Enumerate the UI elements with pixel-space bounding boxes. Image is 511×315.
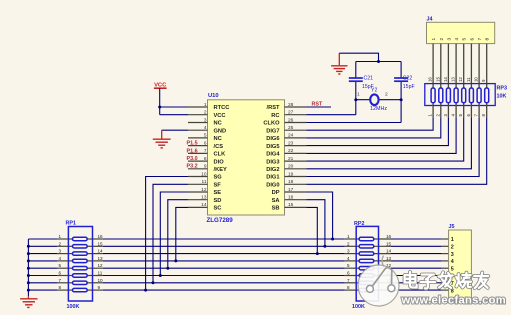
wire DIG0 to RP3 column 8 [307, 117, 487, 184]
svg-text:P3.0: P3.0 [187, 156, 198, 162]
svg-text:16: 16 [98, 234, 104, 239]
RP3 pin 4 bottom stub [455, 106, 457, 118]
resistor pack RP1 box [68, 227, 92, 302]
bus row 2 wire [28, 245, 57, 247]
U10 pin 6 stub (/CS) [188, 145, 208, 147]
junction top edge [377, 60, 380, 63]
svg-text:10: 10 [474, 77, 479, 82]
svg-text:SG: SG [214, 175, 223, 181]
junction SD/row5 [166, 267, 169, 270]
U10 pin 13 stub (SD) [188, 199, 208, 201]
svg-text:DIG3: DIG3 [266, 159, 279, 165]
svg-text:SC: SC [214, 206, 222, 212]
RP2 resistor element 1 [359, 237, 374, 240]
U10 pin 5 stub (NC) [188, 137, 208, 139]
RP3 resistor element 1 [431, 88, 435, 103]
svg-text:6: 6 [58, 271, 61, 276]
U10 pin 15 stub (SB) [285, 206, 307, 208]
svg-text:7: 7 [477, 38, 483, 41]
resistor pack RP2 box [356, 226, 378, 301]
svg-text:RP1: RP1 [66, 220, 77, 226]
bus row 8 wire [28, 289, 57, 291]
RP2 resistor element 3 [359, 252, 374, 255]
junction DP/row1 [331, 238, 334, 241]
U10 pin 16 stub (SA) [285, 199, 307, 201]
svg-text:8: 8 [347, 285, 350, 290]
U10 pin 18 stub (DIG0) [285, 183, 307, 185]
U10 pin 1 stub (RTCC) [188, 106, 208, 108]
RP2 resistor element 6 [359, 274, 374, 277]
junction bus/row8 [27, 289, 30, 292]
RP3 pin 5 bottom stub [463, 106, 465, 118]
junction SC/row4 [174, 259, 177, 262]
svg-text:8: 8 [485, 38, 491, 41]
svg-text:RTCC: RTCC [214, 105, 230, 111]
bus row 4 wire [28, 260, 57, 262]
wire DIG7 to RP3 column 1 [307, 117, 434, 130]
svg-text:SD: SD [214, 198, 222, 204]
svg-text:DIG6: DIG6 [266, 136, 279, 142]
wire crystal row [356, 99, 401, 101]
wire DIG1 to RP3 column 7 [307, 117, 480, 176]
wire SC to bus row 4 [176, 207, 188, 261]
svg-text:4: 4 [58, 256, 61, 261]
svg-text:DIO: DIO [214, 159, 225, 165]
svg-text:11: 11 [466, 77, 471, 82]
RP3 resistor element 6 [469, 88, 473, 103]
svg-text:10K: 10K [497, 94, 507, 100]
RP3 pin 1 bottom stub [432, 106, 434, 118]
svg-text:6: 6 [204, 140, 207, 146]
svg-text:DIG5: DIG5 [266, 144, 279, 150]
wire right branch through C22 [400, 62, 402, 78]
junction SE/row6 [159, 274, 162, 277]
RP1 resistor element 4 [73, 259, 88, 262]
U10 pin 8 stub (DIO) [188, 160, 208, 162]
svg-text:J4: J4 [427, 16, 433, 22]
capacitor C22 [394, 77, 408, 79]
junction crystal node 2 [400, 98, 403, 101]
svg-text:3: 3 [204, 117, 207, 123]
svg-text:14: 14 [201, 202, 207, 208]
svg-text:VCC: VCC [214, 113, 226, 119]
J4 pin 8 stub [486, 44, 488, 84]
svg-text:1: 1 [451, 237, 454, 243]
RP3 column internal wire 5 [463, 84, 465, 88]
svg-text:8: 8 [58, 285, 61, 290]
svg-text:2: 2 [451, 245, 454, 251]
svg-text:P1.6: P1.6 [187, 148, 198, 154]
svg-text:4: 4 [204, 125, 207, 131]
svg-text:5: 5 [451, 266, 454, 272]
svg-text:28: 28 [288, 102, 294, 108]
RP3 pin 8 bottom stub [486, 106, 488, 118]
svg-text:RST: RST [312, 101, 323, 107]
watermark logo circle [358, 265, 399, 306]
svg-text:2: 2 [439, 38, 445, 41]
svg-text:15: 15 [288, 202, 294, 208]
wire SE to bus row 6 [160, 192, 188, 276]
svg-text:3: 3 [451, 252, 454, 258]
svg-text:SB: SB [272, 206, 280, 212]
wire DIG6 to RP3 column 2 [307, 117, 441, 138]
junction bus/row7 [27, 281, 30, 284]
svg-text:13: 13 [386, 256, 392, 261]
svg-text:21: 21 [288, 156, 294, 162]
U10 pin 26 stub (CLKO) [285, 122, 307, 124]
U10 pin 23 stub (DIG5) [285, 145, 307, 147]
svg-text:23: 23 [288, 140, 294, 146]
RP3 column internal wire 7 [478, 84, 480, 88]
svg-text:2: 2 [204, 110, 207, 116]
U10 pin 24 stub (DIG6) [285, 137, 307, 139]
junction bus/row2 [27, 245, 30, 248]
wire SD to bus row 5 [168, 200, 188, 269]
U10 pin 7 stub (CLK) [188, 152, 208, 154]
junction crystal node 1 [354, 98, 357, 101]
J4 pin 4 stub [455, 44, 457, 84]
svg-text:SF: SF [214, 183, 222, 189]
svg-text:4: 4 [451, 259, 454, 265]
svg-text:RP3: RP3 [497, 86, 508, 92]
svg-text:2: 2 [347, 241, 350, 246]
RP3 column internal wire 6 [470, 84, 472, 88]
ground at RP1 bus [27, 296, 29, 298]
svg-text:12MHz: 12MHz [370, 106, 387, 112]
svg-text:P1.5: P1.5 [187, 141, 198, 147]
watermark title 电子发烧友 [408, 272, 412, 284]
svg-text:14: 14 [443, 77, 448, 82]
svg-text:26: 26 [288, 117, 294, 123]
RP1 resistor element 7 [73, 281, 88, 284]
svg-text:9: 9 [204, 164, 207, 170]
RP3 pin 7 bottom stub [478, 106, 480, 118]
crystal Y2 12MHz [370, 94, 378, 105]
svg-text:4: 4 [347, 256, 350, 261]
RP3 resistor element 4 [454, 88, 458, 103]
svg-text:3: 3 [58, 249, 61, 254]
IC U10 ZLG7289 body [208, 100, 285, 215]
RP2 resistor element 4 [359, 259, 374, 262]
RP3 pin 6 bottom stub [470, 106, 472, 118]
svg-text:6: 6 [347, 271, 350, 276]
RP1 resistor element 6 [73, 274, 88, 277]
U10 pin 12 stub (SE) [188, 191, 208, 193]
J4 pin 1 stub [432, 44, 434, 84]
wire VCC to pin1 RTCC [160, 106, 188, 108]
ground at crystal [338, 53, 340, 65]
svg-text:7: 7 [204, 148, 207, 154]
U10 pin 21 stub (DIG3) [285, 160, 307, 162]
svg-text:25: 25 [288, 125, 294, 131]
svg-text:16: 16 [288, 195, 294, 201]
RP2 resistor element 5 [359, 267, 374, 270]
svg-text:9: 9 [98, 285, 101, 290]
RP3 resistor element 8 [485, 88, 489, 103]
wire GND pin4 [162, 129, 188, 131]
svg-text:Y2: Y2 [371, 88, 377, 94]
RP3 column internal wire 2 [440, 84, 442, 88]
bus row 1 wire [28, 238, 57, 240]
RP3 resistor element 7 [477, 88, 481, 103]
junction bus/row6 [27, 274, 30, 277]
ground at U10 GND pin [161, 130, 163, 138]
svg-text:24: 24 [288, 133, 294, 139]
RP1 resistor element 5 [73, 267, 88, 270]
svg-text:20: 20 [288, 164, 294, 170]
svg-text:14: 14 [386, 249, 392, 254]
svg-text:4: 4 [454, 38, 460, 41]
svg-text:DIG0: DIG0 [266, 183, 279, 189]
junction bus/row4 [27, 259, 30, 262]
svg-text:1: 1 [347, 234, 350, 239]
svg-text:14: 14 [98, 249, 104, 254]
wire crystal ground top [339, 53, 378, 61]
U10 pin 19 stub (DIG1) [285, 176, 307, 178]
svg-text:C22: C22 [403, 76, 413, 82]
wire crystal top edge [356, 61, 401, 63]
svg-text:15pF: 15pF [403, 84, 415, 90]
net label RST on pin 28 [307, 106, 332, 108]
svg-text:DIG7: DIG7 [266, 128, 279, 134]
RP3 column internal wire 1 [432, 84, 434, 88]
svg-text:DP: DP [272, 190, 280, 196]
svg-text:12: 12 [98, 263, 104, 268]
svg-text:10: 10 [201, 171, 207, 177]
U10 pin 2 stub (VCC) [188, 114, 208, 116]
RP3 pin 2 bottom stub [440, 106, 442, 118]
RP3 column internal wire 4 [455, 84, 457, 88]
U10 pin 11 stub (SF) [188, 183, 208, 185]
svg-text:5: 5 [58, 263, 61, 268]
RP2 resistor element 7 [359, 281, 374, 284]
svg-text:16: 16 [386, 234, 392, 239]
svg-text:13: 13 [98, 256, 104, 261]
wire DP to bus row 1 [307, 192, 333, 239]
svg-text:NC: NC [214, 121, 222, 127]
RP2 resistor element 8 [359, 288, 374, 291]
wire VCC to pin2 VCC [160, 114, 188, 116]
svg-text:7: 7 [347, 278, 350, 283]
capacitor C21 [349, 77, 363, 79]
bus row 3 wire [28, 253, 57, 255]
RP1 resistor element 8 [73, 288, 88, 291]
svg-text:CLKO: CLKO [263, 121, 280, 127]
svg-text:15: 15 [386, 241, 392, 246]
svg-text:12: 12 [201, 187, 207, 193]
svg-text:12: 12 [458, 77, 463, 82]
bus row 6 wire [28, 275, 57, 277]
svg-text:13: 13 [451, 77, 456, 82]
RP3 column internal wire 8 [486, 84, 488, 88]
wire left branch through C21 [355, 62, 357, 78]
svg-text:SE: SE [214, 190, 222, 196]
RP3 resistor element 5 [462, 88, 466, 103]
svg-text:11: 11 [202, 179, 207, 185]
U10 pin 27 stub (RC) [285, 114, 307, 116]
wire SF to bus row 7 [153, 184, 188, 282]
wire DIG4 to RP3 column 4 [307, 117, 457, 153]
watermark logo arm [382, 256, 384, 267]
RP1 resistor element 2 [73, 245, 88, 248]
J4 pin 3 stub [447, 44, 449, 84]
svg-text:18: 18 [288, 179, 294, 185]
svg-text:11: 11 [98, 271, 103, 276]
svg-text:15: 15 [98, 241, 104, 246]
U10 pin 3 stub (NC) [188, 122, 208, 124]
J4 pin 2 stub [440, 44, 442, 84]
svg-text:SA: SA [272, 198, 280, 204]
svg-text:16: 16 [428, 77, 433, 82]
wire SG to bus row 8 [146, 177, 188, 291]
svg-text:27: 27 [288, 110, 294, 116]
wire DIG3 to RP3 column 5 [307, 117, 464, 161]
svg-text:19: 19 [288, 171, 294, 177]
RP3 pin 3 bottom stub [447, 106, 449, 118]
svg-text:3: 3 [446, 38, 452, 41]
svg-text:1: 1 [431, 38, 437, 41]
svg-text:3: 3 [347, 249, 350, 254]
J4 pin 6 stub [470, 44, 472, 84]
RP3 resistor element 2 [439, 88, 443, 103]
resistor pack RP3 box [425, 84, 495, 106]
wire DIG5 to RP3 column 3 [307, 117, 449, 145]
U10 pin 17 stub (DP) [285, 191, 307, 193]
wire CLKO pin26 to crystal node 2 [307, 122, 402, 124]
wire DIG2 to RP3 column 6 [307, 117, 472, 169]
RP3 column internal wire 3 [447, 84, 449, 88]
ground bus at RP1 [27, 239, 29, 296]
svg-text:15: 15 [435, 77, 440, 82]
svg-text:10: 10 [98, 278, 104, 283]
U10 pin 9 stub (/KEY) [188, 168, 208, 170]
svg-text:DIG1: DIG1 [266, 175, 279, 181]
svg-text:13: 13 [201, 195, 207, 201]
U10 pin 10 stub (SG) [188, 176, 208, 178]
wire SB to bus row 3 [307, 207, 318, 253]
svg-text:7: 7 [58, 278, 61, 283]
junction bus/row3 [27, 252, 30, 255]
svg-text:GND: GND [214, 128, 227, 134]
svg-text:5: 5 [347, 263, 350, 268]
svg-text:6: 6 [469, 38, 475, 41]
RP3 resistor element 3 [446, 88, 450, 103]
svg-text:100K: 100K [67, 304, 80, 310]
junction SF/row7 [152, 281, 155, 284]
wire VCC vertical [159, 88, 161, 115]
svg-text:/RST: /RST [267, 105, 280, 111]
svg-text:U10: U10 [208, 93, 219, 99]
svg-text:1: 1 [357, 92, 360, 98]
svg-text:J5: J5 [449, 224, 455, 230]
svg-text:/CS: /CS [214, 144, 224, 150]
svg-text:5: 5 [462, 38, 468, 41]
svg-text:ZLG7289: ZLG7289 [207, 217, 234, 224]
svg-text:2: 2 [58, 241, 61, 246]
svg-text:8: 8 [204, 156, 207, 162]
svg-text:C21: C21 [364, 76, 374, 82]
U10 pin 25 stub (DIG7) [285, 129, 307, 131]
U10 pin 4 stub (GND) [188, 129, 208, 131]
svg-text:www.elecfans.com: www.elecfans.com [401, 295, 507, 307]
J4 pin 5 stub [463, 44, 465, 84]
bus row 5 wire [28, 267, 57, 269]
RP1 resistor element 1 [73, 237, 88, 240]
svg-text:22: 22 [288, 148, 294, 154]
bus row 7 wire [28, 282, 57, 284]
svg-text:5: 5 [204, 133, 207, 139]
svg-text:17: 17 [288, 187, 294, 193]
svg-text:100K: 100K [352, 304, 365, 310]
J4 pin 7 stub [478, 44, 480, 84]
svg-text:CLK: CLK [214, 152, 227, 158]
junction SG/row8 [144, 289, 147, 292]
U10 pin 20 stub (DIG2) [285, 168, 307, 170]
junction SB/row3 [316, 252, 319, 255]
svg-text:/KEY: /KEY [214, 167, 227, 173]
U10 pin 28 stub (/RST) [285, 106, 307, 108]
svg-text:DIG4: DIG4 [266, 152, 280, 158]
svg-text:NC: NC [214, 136, 222, 142]
RP2 resistor element 2 [359, 245, 374, 248]
wire RC pin27 to crystal node 1 [307, 114, 356, 116]
svg-text:RC: RC [271, 113, 279, 119]
junction SA/row2 [323, 245, 326, 248]
RP1 resistor element 3 [73, 252, 88, 255]
svg-text:2: 2 [385, 92, 388, 98]
svg-text:1: 1 [204, 102, 207, 108]
svg-text:1: 1 [58, 234, 61, 239]
wire SA to bus row 2 [307, 200, 325, 247]
junction bus/row5 [27, 267, 30, 270]
U10 pin 14 stub (SC) [188, 206, 208, 208]
svg-text:DIG2: DIG2 [266, 167, 279, 173]
junction VCC/pin1 [158, 106, 161, 109]
U10 pin 22 stub (DIG4) [285, 152, 307, 154]
svg-text:P3.2: P3.2 [187, 164, 198, 170]
